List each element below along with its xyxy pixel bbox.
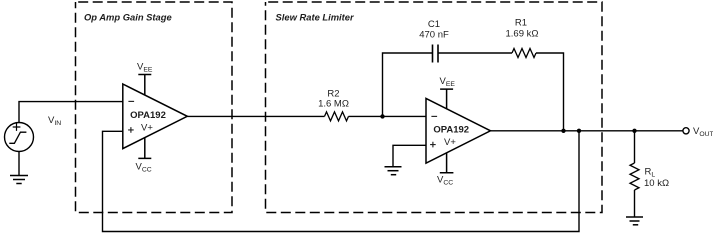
ground (RL) (626, 217, 643, 225)
capacitor C1 (419, 19, 449, 63)
svg-text:OPA192: OPA192 (433, 124, 469, 135)
terminal VOUT (683, 126, 713, 138)
wire: U2 non-inverting input to ground (393, 145, 426, 166)
svg-text:OPA192: OPA192 (130, 110, 166, 121)
label: Op Amp Gain Stage (84, 12, 172, 23)
svg-text:10 kΩ: 10 kΩ (644, 178, 669, 189)
wire: C1 to R1 (438, 52, 512, 54)
label: VIN (48, 115, 61, 127)
resistor R2 (318, 89, 349, 121)
dashed box: Op Amp Gain Stage (76, 2, 233, 213)
label: Slew Rate Limiter (276, 12, 356, 23)
svg-text:1.69 kΩ: 1.69 kΩ (506, 29, 539, 40)
supply VCC (U2) (437, 153, 453, 187)
wire: output node down to RL (634, 131, 636, 163)
svg-text:R1: R1 (515, 18, 527, 29)
wire: RL to ground (634, 190, 636, 217)
op-amp U1 OPA192 (123, 84, 188, 149)
supply VEE (U2) (440, 76, 456, 109)
node: outer feedback junction (577, 129, 581, 133)
node: RL junction (632, 129, 636, 133)
svg-text:V+: V+ (444, 137, 456, 148)
wire: R1 down to output node (536, 53, 564, 131)
wire: source to U1 inverting input (19, 102, 123, 123)
wire: node A up to feedback rail (383, 53, 433, 116)
svg-text:C1: C1 (428, 19, 440, 30)
op-amp U2 OPA192 (426, 98, 491, 163)
wire: U1 output to R2 (187, 115, 324, 117)
wire: U2 output to VOUT terminal (491, 130, 683, 132)
ground (U2 non-inverting input) (385, 167, 402, 175)
source V1 (5, 123, 34, 152)
wire: R2 to U2 inverting input (349, 115, 427, 117)
wire: outer feedback loop to U1 non-inverting input (103, 131, 580, 232)
svg-text:1.6 MΩ: 1.6 MΩ (318, 99, 349, 110)
node A (feedback tap) (380, 114, 384, 118)
svg-text:V+: V+ (141, 123, 153, 134)
svg-text:470 nF: 470 nF (419, 30, 449, 41)
dashed box: Slew Rate Limiter (266, 2, 603, 213)
resistor R1 (506, 18, 539, 58)
svg-text:Op Amp Gain Stage: Op Amp Gain Stage (84, 12, 172, 23)
supply VCC (U1) (136, 137, 152, 173)
svg-text:Slew Rate Limiter: Slew Rate Limiter (276, 12, 356, 23)
node: feedback R1 junction (561, 129, 565, 133)
supply VEE (U1) (137, 61, 153, 95)
ground (source) (10, 152, 28, 184)
resistor RL (630, 163, 669, 190)
